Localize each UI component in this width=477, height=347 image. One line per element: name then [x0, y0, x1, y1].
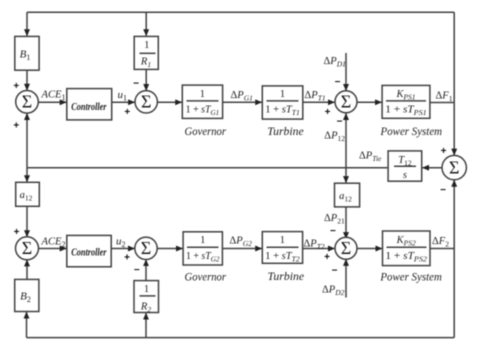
svg-text:+: + — [13, 81, 19, 92]
svg-text:ACE1: ACE1 — [41, 90, 66, 103]
svg-text:Governor: Governor — [185, 272, 227, 284]
svg-text:Controller: Controller — [71, 102, 106, 113]
svg-text:ΔPG2: ΔPG2 — [230, 236, 253, 249]
svg-text:Power System: Power System — [380, 126, 442, 138]
svg-text:−: − — [337, 117, 343, 128]
svg-text:Governor: Governor — [185, 126, 227, 138]
svg-text:u1: u1 — [118, 89, 128, 103]
svg-text:Σ: Σ — [341, 92, 351, 112]
svg-text:ΔF2: ΔF2 — [432, 236, 449, 249]
svg-text:Σ: Σ — [141, 238, 151, 258]
svg-text:+: + — [14, 227, 20, 238]
svg-text:1: 1 — [200, 89, 205, 100]
svg-text:1: 1 — [280, 89, 285, 100]
svg-text:+: + — [13, 121, 19, 132]
svg-text:−: − — [133, 79, 139, 90]
svg-text:1: 1 — [280, 235, 285, 246]
svg-text:Σ: Σ — [22, 238, 32, 258]
svg-text:ΔPD1: ΔPD1 — [324, 56, 346, 69]
svg-text:−: − — [332, 266, 338, 277]
svg-text:s: s — [403, 170, 407, 181]
svg-text:−: − — [330, 226, 336, 237]
svg-text:1: 1 — [144, 284, 149, 295]
svg-text:ΔPTie: ΔPTie — [359, 151, 382, 164]
svg-text:Σ: Σ — [449, 158, 459, 178]
svg-text:ΔPG1: ΔPG1 — [231, 90, 253, 103]
svg-text:+: + — [441, 146, 447, 157]
svg-text:ΔPT1: ΔPT1 — [305, 90, 326, 103]
svg-text:Controller: Controller — [71, 247, 106, 258]
svg-text:+: + — [124, 253, 130, 264]
svg-text:−: − — [335, 77, 341, 88]
svg-text:Σ: Σ — [22, 92, 32, 112]
svg-text:−: − — [440, 185, 446, 196]
svg-text:u2: u2 — [116, 236, 126, 250]
svg-text:ΔPT2: ΔPT2 — [304, 239, 325, 252]
svg-text:ΔF1: ΔF1 — [436, 91, 453, 104]
svg-text:+: + — [124, 107, 130, 118]
svg-text:Turbine: Turbine — [267, 126, 304, 138]
svg-text:1: 1 — [144, 40, 149, 51]
svg-text:ΔP12: ΔP12 — [324, 131, 345, 144]
svg-text:Σ: Σ — [141, 92, 151, 112]
svg-text:Power System: Power System — [379, 271, 441, 283]
svg-text:ΔP21: ΔP21 — [324, 213, 345, 226]
svg-text:Σ: Σ — [341, 238, 351, 258]
svg-text:1: 1 — [200, 235, 205, 246]
svg-text:ACE2: ACE2 — [41, 237, 66, 250]
svg-text:+: + — [324, 252, 330, 263]
svg-text:+: + — [325, 107, 331, 118]
svg-text:ΔPD2: ΔPD2 — [322, 285, 345, 298]
svg-text:−: − — [134, 265, 140, 276]
svg-text:Turbine: Turbine — [268, 271, 305, 283]
